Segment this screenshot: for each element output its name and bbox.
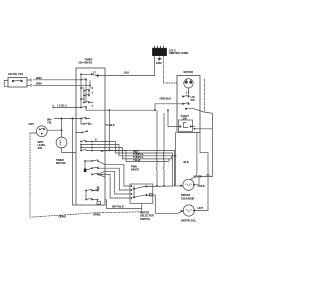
motor circle	[184, 79, 193, 88]
wire hot right to white rail	[195, 210, 208, 212]
timer contact group 2	[76, 79, 91, 89]
svg-text:WHT-BLK: WHT-BLK	[112, 205, 124, 209]
cold water solenoid	[183, 179, 194, 190]
wire WHT-BLK from timer bottom corner	[105, 200, 142, 209]
junction parallel wire top	[72, 118, 74, 120]
start switch terminals	[179, 126, 181, 128]
lid switch contact terminal right	[20, 80, 22, 82]
wire bundle YELLOW	[105, 151, 169, 162]
timer exit dot joining yl-blk wire	[101, 150, 103, 152]
wire GRN-BLK from timer to motor	[105, 104, 183, 110]
wire LT BLU to timer	[53, 105, 77, 108]
timer contact group 6 fan	[80, 138, 105, 152]
temp switch pole 2	[133, 196, 135, 198]
svg-text:BLK: BLK	[124, 71, 129, 75]
svg-text:205-43M D1: 205-43M D1	[79, 61, 93, 65]
temp switch left terminal dots	[131, 185, 133, 187]
lid switch left jumper wire	[4, 81, 8, 87]
svg-text:YL-BLK: YL-BLK	[106, 123, 115, 127]
wire water level sw to timer motor stem	[47, 129, 61, 131]
hot water solenoid	[183, 205, 194, 216]
timer contact row y132	[81, 132, 83, 134]
vertical wire B down to cold solenoid wire	[162, 113, 165, 186]
svg-text:GRN: GRN	[156, 61, 162, 65]
wire bundle top (yl-blk) to cold feed	[109, 150, 174, 185]
wire temp sw to cold solenoid	[152, 185, 184, 188]
hop on white wire	[206, 175, 210, 177]
white rail vertical	[207, 153, 209, 211]
timer contact group 8 bottom	[85, 187, 100, 205]
svg-text:2: 2	[92, 91, 94, 95]
timer motor circle	[56, 137, 67, 148]
timer contact group 3	[80, 80, 93, 108]
svg-text:6: 6	[92, 86, 94, 90]
temp switch bottom stub	[141, 203, 143, 212]
svg-text:WATER SOL.: WATER SOL.	[181, 219, 197, 223]
wire start sw left to vertical	[168, 126, 177, 128]
svg-text:LT. BLU: LT. BLU	[58, 103, 67, 107]
wire GRN dash to motor frame	[164, 56, 178, 83]
lid switch blade	[13, 79, 22, 82]
svg-text:GRN-BLK: GRN-BLK	[160, 97, 172, 101]
right rail x212	[212, 129, 214, 177]
wire BRN upper to timer	[34, 79, 77, 81]
lid switch right stub wire 1 with connector	[27, 79, 32, 81]
timer motor stem top	[61, 119, 63, 138]
svg-text:COLD: COLD	[198, 184, 205, 188]
timer contact group 1 TM	[80, 70, 99, 79]
water level switch circle	[36, 126, 47, 137]
timer contact group 7	[84, 160, 105, 177]
svg-text:8: 8	[95, 138, 97, 142]
wire motor to lid sw contact	[188, 88, 190, 95]
junction timer motor stem	[61, 118, 63, 120]
svg-text:LID SW. ASY.: LID SW. ASY.	[8, 72, 24, 76]
dashed wire ORANGE down and across	[30, 133, 142, 217]
parallel wire left of timer	[73, 119, 77, 206]
svg-text:YELW: YELW	[133, 158, 141, 162]
wire bundle WHITE	[105, 171, 130, 194]
svg-text:BLK: BLK	[184, 160, 189, 164]
start switch element	[184, 123, 189, 128]
lid switch contact terminal left	[12, 80, 14, 82]
wire bundle PURPLE 2	[105, 148, 172, 159]
stub water level to dashed	[30, 132, 37, 134]
svg-text:SW: SW	[191, 98, 196, 102]
wire YL-BLK from GRN-BLK junction down to bundle	[108, 110, 110, 150]
svg-text:SOLENOID: SOLENOID	[181, 196, 194, 200]
start switch box	[179, 120, 193, 131]
wire bundle PINK	[105, 168, 130, 190]
svg-text:SWITCH: SWITCH	[140, 217, 150, 221]
svg-text:ORNG: ORNG	[59, 214, 67, 218]
wire bundle PURPLE 1	[105, 145, 176, 156]
temp switch interior bracket	[133, 186, 135, 198]
temp switch right terminal block	[149, 193, 153, 196]
wire BRN lower to timer	[34, 84, 77, 86]
ground arrow GRN	[158, 57, 161, 61]
motor assembly box	[177, 76, 200, 133]
wire BLK from timer to service cord	[98, 75, 155, 77]
svg-text:ORNG: ORNG	[93, 213, 101, 217]
motor lid switch contacts	[182, 96, 184, 98]
motor down wire BLK to cold solenoid	[190, 133, 197, 180]
motor box right edge extension down	[200, 133, 208, 153]
motor contact lower	[185, 108, 187, 110]
timer contact group 4	[76, 101, 105, 110]
svg-text:MOTOR: MOTOR	[184, 70, 194, 74]
lid switch right stub wire 2 with connector	[27, 84, 32, 86]
timer motor bottom wire	[62, 148, 77, 153]
lid switch box	[8, 78, 27, 88]
wire WH-YEL from water level sw to timer	[54, 118, 76, 120]
wire cold right up white	[194, 177, 213, 185]
timer box	[76, 68, 105, 205]
svg-text:1?: 1?	[93, 70, 96, 74]
svg-text:BRN: BRN	[36, 76, 42, 80]
wire bundle unlabeled 5	[105, 165, 130, 186]
svg-text:YEL: YEL	[47, 121, 52, 125]
timer contact group 5	[76, 117, 92, 125]
svg-text:1 2: 1 2	[186, 90, 190, 94]
wire service cord left lead down	[154, 56, 156, 76]
wire bundle unlabeled 8	[105, 174, 130, 198]
vertical wire right of timer x168	[167, 110, 169, 126]
svg-text:GRY: GRY	[29, 122, 35, 126]
wire bundle RED	[105, 142, 173, 186]
120V service cord connector	[153, 48, 167, 55]
temp selector switch box	[130, 184, 153, 203]
svg-text:MOTOR: MOTOR	[56, 161, 66, 165]
svg-text:4: 4	[92, 104, 94, 108]
temp switch pole 1	[133, 188, 135, 190]
svg-text:WHITE: WHITE	[131, 168, 139, 172]
svg-text:BRN: BRN	[36, 82, 42, 86]
svg-text:SW.: SW.	[38, 146, 43, 150]
svg-text:HOT: HOT	[198, 206, 204, 210]
motor lead down left	[175, 133, 177, 186]
svg-text:SERVICE CORD: SERVICE CORD	[169, 51, 188, 55]
dash ground line right of motor	[204, 79, 206, 112]
vertical wire A down to cold solenoid wire	[155, 110, 158, 186]
wire temp sw pole2 to hot solenoid	[153, 195, 184, 213]
wire lid sw diagonal to right rail	[186, 108, 213, 129]
